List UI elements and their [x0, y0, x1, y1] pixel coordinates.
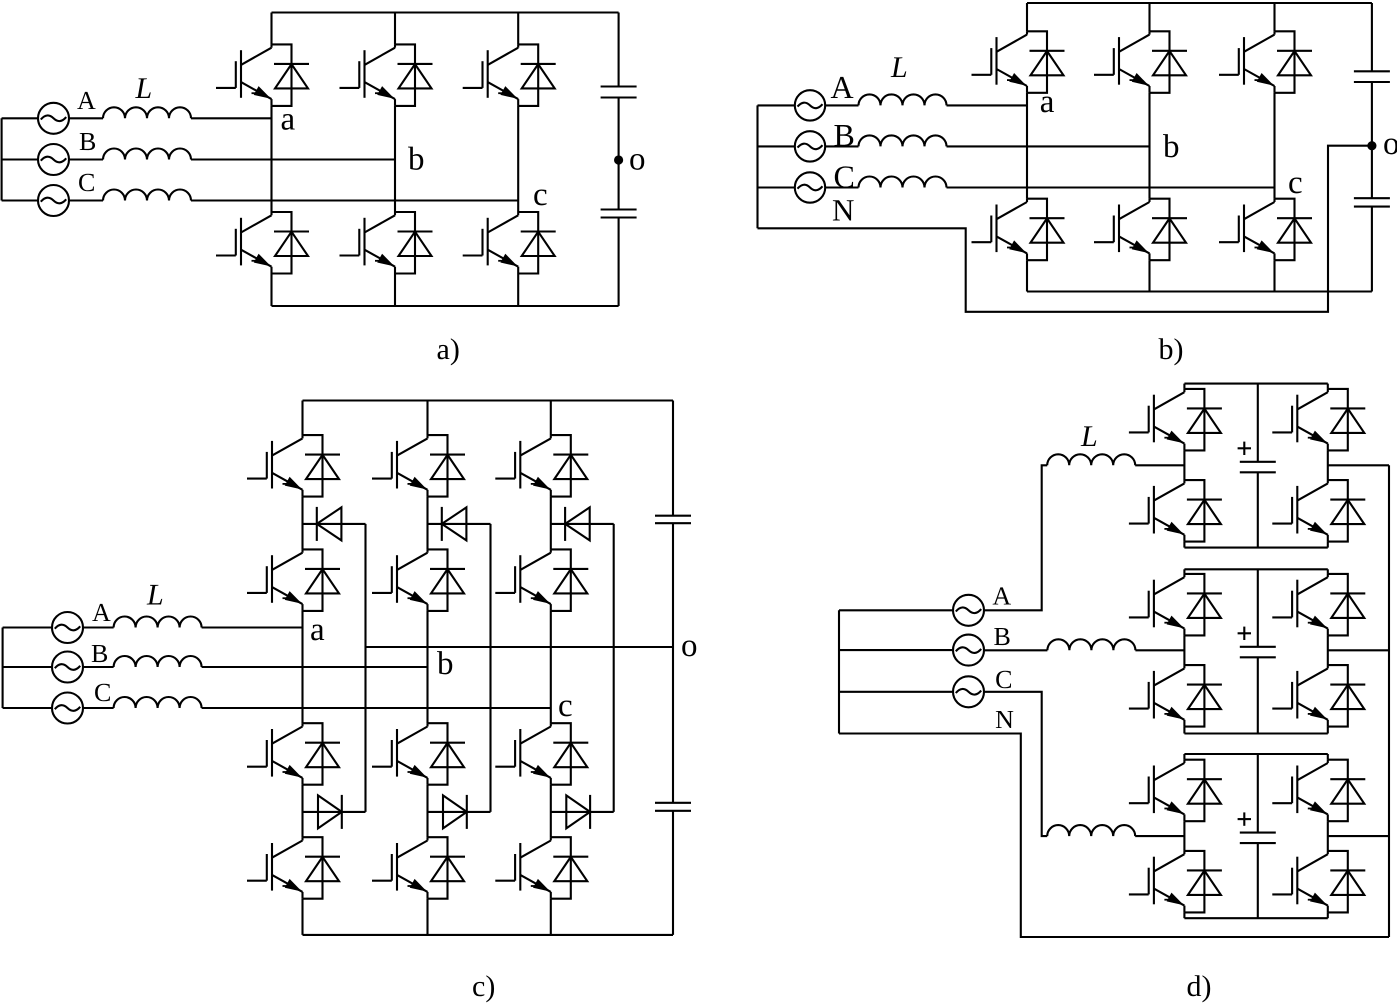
wire: circuit c leg b bottom lead	[426, 899, 428, 935]
wire: circuit c leg b lower clamp wire	[428, 811, 491, 813]
wire: circuit b leg c middle lead	[1273, 93, 1275, 199]
wire: circuit a phase A source to inductor	[69, 117, 104, 119]
svg-text:b): b)	[1159, 333, 1184, 366]
wire: circuit d source common bus	[838, 610, 840, 733]
wire: circuit d bridge 3 (phase C) output to right bus	[1328, 835, 1389, 837]
IGBT+diode module: circuit b, leg a, lower	[972, 199, 1065, 261]
wire: circuit d bridge 1 (phase A) output to right bus	[1328, 464, 1389, 466]
IGBT+diode module: circuit d bridge 2 (phase B), left leg, lower	[1129, 665, 1222, 727]
wire: circuit d bridge 3 (phase C) bottom DC rail	[1184, 917, 1327, 919]
svg-text:a: a	[1040, 84, 1055, 120]
svg-text:C: C	[78, 168, 95, 197]
inductor L phase C (circuit d)	[1047, 825, 1135, 836]
wire: circuit d phase B source to inductor	[984, 649, 1048, 651]
svg-text:A: A	[77, 86, 96, 115]
AC source phase B (circuit c)	[52, 652, 83, 683]
AC source phase C (circuit b)	[795, 172, 825, 202]
wire: circuit d bridge 1 (phase A) top DC rail	[1184, 383, 1327, 385]
IGBT+diode module: circuit a, leg b, upper	[340, 44, 433, 106]
wire: circuit b top DC rail	[1027, 2, 1372, 4]
svg-text:B: B	[834, 117, 855, 153]
wire: circuit a phase B inductor to leg b	[191, 158, 395, 160]
svg-text:C: C	[995, 665, 1012, 694]
IGBT+diode module: circuit b, leg b, lower	[1094, 199, 1187, 261]
wire: circuit b leg c bottom lead	[1273, 260, 1275, 291]
wire: circuit a phase A from bus to source	[2, 117, 39, 119]
wire: circuit d phase C source to dropper	[984, 692, 1048, 836]
node o junction dot (circuit b)	[1367, 141, 1376, 150]
inductor L phase A (circuit a)	[103, 107, 191, 118]
svg-text:c: c	[558, 688, 573, 724]
wire: circuit b DC link column lower	[1371, 207, 1373, 292]
plus sign: circuit d bridge 2 (phase B) capacitor polarity	[1238, 627, 1251, 640]
wire: circuit c DC link column middle	[672, 523, 674, 803]
IGBT+diode module: circuit c, leg b, outer upper	[372, 435, 465, 497]
wire: circuit c phase C inductor to leg c	[202, 707, 551, 709]
svg-text:L: L	[135, 72, 153, 105]
wire: circuit d bridge 1 (phase A) cap column upper	[1257, 384, 1259, 462]
AC source phase B (circuit d)	[953, 635, 984, 666]
IGBT+diode module: circuit a, leg a, upper	[216, 44, 309, 106]
wire: circuit c leg b node lead	[426, 611, 428, 723]
wire: circuit d phase A from bus to source	[839, 609, 954, 611]
wire: circuit a phase C inductor to leg c	[191, 199, 518, 201]
wire: circuit b bottom DC rail	[1027, 290, 1372, 292]
wire: circuit b DC link column upper	[1371, 3, 1373, 71]
clamp diode: circuit c, leg b, lower	[443, 795, 467, 829]
IGBT+diode module: circuit d bridge 2 (phase B), right leg, lower	[1272, 665, 1365, 727]
svg-text:c: c	[1288, 165, 1303, 201]
svg-text:b: b	[437, 646, 454, 682]
wire: circuit c phase C source to inductor	[83, 707, 114, 709]
AC source phase C (circuit d)	[953, 676, 984, 707]
wire: circuit d neutral N run	[839, 734, 1389, 938]
svg-text:L: L	[1080, 420, 1098, 453]
wire: circuit c phase C from bus to source	[3, 707, 53, 709]
svg-text:L: L	[890, 51, 908, 84]
IGBT+diode module: circuit b, leg c, upper	[1219, 31, 1312, 93]
svg-text:A: A	[92, 598, 111, 627]
wire: circuit d bridge 3 (phase C) left leg top lead	[1183, 754, 1185, 760]
IGBT+diode module: circuit a, leg c, upper	[463, 44, 556, 106]
inductor L phase C (circuit c)	[114, 697, 202, 708]
wire: circuit c phase B inductor to leg b	[202, 666, 428, 668]
svg-text:C: C	[834, 159, 855, 195]
wire: circuit c leg c upper clamp wire	[551, 523, 614, 525]
wire: circuit a bottom DC rail	[272, 305, 619, 307]
wire: circuit d bridge 2 (phase B) cap column upper	[1257, 569, 1259, 647]
capacitor: circuit c lower DC-link	[655, 803, 691, 811]
svg-text:B: B	[91, 639, 108, 668]
wire: circuit c DC link column lower	[672, 811, 674, 935]
wire: circuit d bridge 1 (phase A) right leg middle lead	[1327, 450, 1329, 480]
plus sign: circuit d bridge 1 (phase A) capacitor polarity	[1238, 442, 1251, 455]
inductor L phase B (circuit d)	[1047, 639, 1135, 650]
capacitor: circuit d bridge 3 (phase C) DC-link	[1240, 833, 1276, 844]
wire: circuit c phase B source to inductor	[83, 666, 114, 668]
wire: circuit d bridge 2 (phase B) output to right bus	[1328, 649, 1389, 651]
inductor L phase C (circuit a)	[103, 190, 191, 201]
IGBT+diode module: circuit a, leg b, lower	[340, 212, 433, 274]
clamp diode: circuit c, leg c, lower	[566, 795, 590, 829]
wire: circuit c leg a upper clamp wire	[303, 523, 366, 525]
capacitor: circuit d bridge 1 (phase A) DC-link	[1240, 462, 1276, 473]
IGBT+diode module: circuit b, leg a, upper	[972, 31, 1065, 93]
wire: circuit d bridge 3 (phase C) left leg middle lead	[1183, 821, 1185, 851]
wire: circuit d bridge 2 (phase B) bottom DC rail	[1184, 732, 1327, 734]
wire: circuit c leg a node lead	[301, 611, 303, 723]
wire: circuit c leg a bottom lead	[301, 899, 303, 935]
AC source phase A (circuit d)	[953, 595, 984, 626]
wire: circuit d bridge 3 (phase C) cap column upper	[1257, 754, 1259, 833]
svg-text:C: C	[94, 678, 111, 707]
capacitor: circuit a upper DC-link	[601, 87, 637, 98]
wire: circuit d bridge 1 (phase A) right leg bottom lead	[1327, 542, 1329, 548]
IGBT+diode module: circuit c, leg c, inner upper	[495, 549, 588, 611]
wire: circuit a top DC rail	[272, 11, 619, 13]
IGBT+diode module: circuit c, leg b, inner upper	[372, 549, 465, 611]
wire: circuit b phase B inductor to leg b	[947, 145, 1150, 147]
AC source phase A (circuit c)	[52, 612, 83, 643]
IGBT+diode module: circuit c, leg b, outer lower	[372, 837, 465, 899]
IGBT+diode module: circuit d bridge 1 (phase A), right leg, upper	[1272, 389, 1365, 451]
wire: circuit a leg b top lead	[394, 13, 396, 45]
wire: circuit c neutral o line	[366, 646, 674, 648]
svg-text:o: o	[681, 628, 698, 664]
wire: circuit b phase C source to inductor	[825, 186, 858, 188]
svg-text:B: B	[994, 622, 1011, 651]
IGBT+diode module: circuit c, leg c, outer upper	[495, 435, 588, 497]
wire: circuit b phase B from bus to source	[758, 145, 795, 147]
svg-text:N: N	[832, 193, 854, 228]
wire: circuit c phase A source to inductor	[83, 626, 114, 628]
wire: circuit a leg c middle lead	[517, 106, 519, 212]
wire: circuit c DC link column upper	[672, 401, 674, 516]
wire: circuit d bridge 2 (phase B) left leg bottom lead	[1183, 727, 1185, 734]
wire: circuit a phase C source to inductor	[69, 199, 104, 201]
inductor L phase A (circuit d)	[1047, 454, 1135, 465]
inductor L phase A (circuit b)	[859, 94, 947, 105]
wire: circuit b phase A from bus to source	[758, 104, 795, 106]
wire: circuit c phase B from bus to source	[3, 666, 53, 668]
wire: circuit d bridge 1 (phase A) right leg top lead	[1327, 384, 1329, 389]
wire: circuit d phase B inductor to bridge 2	[1135, 649, 1184, 651]
wire: circuit a leg c bottom lead	[517, 274, 519, 307]
wire: circuit d phase B from bus to source	[839, 649, 954, 651]
wire: circuit b phase B source to inductor	[825, 145, 858, 147]
inductor L phase B (circuit b)	[859, 135, 947, 146]
wire: circuit b leg c top lead	[1273, 3, 1275, 31]
wire: circuit c leg c node lead	[550, 611, 552, 723]
IGBT+diode module: circuit c, leg c, inner lower	[495, 723, 588, 785]
wire: circuit d phase C inductor to bridge 3	[1135, 835, 1184, 837]
inductor L phase B (circuit a)	[103, 149, 191, 160]
wire: circuit c leg a lower middle lead	[301, 785, 303, 838]
wire: circuit d bridge 3 (phase C) left leg bottom lead	[1183, 912, 1185, 918]
plus sign: circuit d bridge 3 (phase C) capacitor polarity	[1238, 812, 1251, 825]
IGBT+diode module: circuit c, leg a, outer lower	[247, 837, 340, 899]
capacitor: circuit c upper DC-link	[655, 516, 691, 524]
wire: circuit c leg a top lead	[301, 401, 303, 436]
wire: circuit d phase A source to riser	[984, 465, 1048, 610]
wire: circuit b neutral N run	[758, 146, 1372, 312]
wire: circuit c bottom DC rail	[303, 934, 674, 936]
wire: circuit d bridge 2 (phase B) right leg middle lead	[1327, 635, 1329, 665]
wire: circuit b source common bus	[756, 105, 758, 228]
wire: circuit a leg a top lead	[270, 13, 272, 45]
wire: circuit c leg c bottom lead	[550, 899, 552, 935]
wire: circuit d bridge 1 (phase A) left leg bottom lead	[1183, 542, 1185, 548]
wire: circuit a leg c top lead	[517, 13, 519, 45]
IGBT+diode module: circuit b, leg b, upper	[1094, 31, 1187, 93]
IGBT+diode module: circuit d bridge 3 (phase C), left leg, lower	[1129, 851, 1222, 913]
wire: circuit c leg b upper middle lead	[426, 497, 428, 550]
clamp diode: circuit c, leg a, lower	[318, 795, 342, 829]
wire: circuit a phase B source to inductor	[69, 158, 104, 160]
inductor L phase C (circuit b)	[859, 177, 947, 188]
wire: circuit c leg a clamp vertical	[364, 524, 366, 812]
wire: circuit b phase A inductor to leg a	[947, 104, 1028, 106]
IGBT+diode module: circuit c, leg a, inner upper	[247, 549, 340, 611]
IGBT+diode module: circuit c, leg c, outer lower	[495, 837, 588, 899]
clamp diode: circuit c, leg b, upper	[442, 507, 467, 541]
wire: circuit c top DC rail	[303, 399, 674, 401]
wire: circuit b leg a middle lead	[1026, 93, 1028, 199]
wire: circuit d bridge 2 (phase B) cap column lower	[1257, 657, 1259, 733]
IGBT+diode module: circuit a, leg c, lower	[463, 212, 556, 274]
svg-text:L: L	[146, 579, 164, 612]
wire: circuit d bridge 1 (phase A) cap column lower	[1257, 472, 1259, 547]
wire: circuit a leg b middle lead	[394, 106, 396, 212]
wire: circuit c leg b lower middle lead	[426, 785, 428, 838]
inductor L phase B (circuit c)	[114, 656, 202, 667]
capacitor: circuit b upper DC-link	[1354, 71, 1390, 82]
wire: circuit d bridge 2 (phase B) top DC rail	[1184, 568, 1327, 570]
clamp diode: circuit c, leg a, upper	[317, 507, 342, 541]
wire: circuit d bridge 2 (phase B) left leg middle lead	[1183, 635, 1185, 665]
IGBT+diode module: circuit a, leg a, lower	[216, 212, 309, 274]
svg-text:b: b	[1163, 129, 1180, 165]
wire: circuit a phase B from bus to source	[2, 158, 39, 160]
IGBT+diode module: circuit d bridge 2 (phase B), left leg, upper	[1129, 574, 1222, 636]
AC source phase C (circuit a)	[38, 185, 69, 216]
wire: circuit d bridge 2 (phase B) right leg bottom lead	[1327, 727, 1329, 734]
wire: circuit d bridge 2 (phase B) left leg top lead	[1183, 569, 1185, 574]
wire: circuit c source common bus	[2, 628, 4, 709]
wire: circuit d bridge 1 (phase A) bottom DC rail	[1184, 547, 1327, 549]
svg-text:a: a	[310, 612, 325, 648]
IGBT+diode module: circuit d bridge 1 (phase A), right leg, lower	[1272, 480, 1365, 541]
IGBT+diode module: circuit d bridge 1 (phase A), left leg, upper	[1129, 389, 1222, 451]
wire: circuit c phase A inductor to leg a	[202, 626, 303, 628]
wire: circuit d bridge 2 (phase B) right leg top lead	[1327, 569, 1329, 574]
wire: circuit d bridge 1 (phase A) left leg top lead	[1183, 384, 1185, 389]
wire: circuit a leg a bottom lead	[270, 274, 272, 307]
wire: circuit d bridge 3 (phase C) right leg middle lead	[1327, 821, 1329, 851]
wire: circuit b leg b middle lead	[1148, 93, 1150, 199]
wire: circuit b phase C from bus to source	[758, 186, 795, 188]
wire: circuit c leg c top lead	[550, 401, 552, 436]
wire: circuit c phase A from bus to source	[3, 626, 53, 628]
wire: circuit c leg c clamp vertical	[613, 524, 615, 812]
wire: circuit b leg b top lead	[1148, 3, 1150, 31]
AC source phase A (circuit a)	[38, 103, 69, 134]
AC source phase B (circuit b)	[795, 131, 825, 161]
svg-text:N: N	[995, 705, 1014, 734]
IGBT+diode module: circuit d bridge 2 (phase B), right leg, upper	[1272, 574, 1365, 636]
svg-text:A: A	[831, 69, 854, 105]
capacitor: circuit b lower DC-link	[1354, 198, 1390, 206]
wire: circuit c leg c lower clamp wire	[551, 811, 614, 813]
wire: circuit b phase C inductor to leg c	[947, 186, 1275, 188]
wire: circuit d bridge 3 (phase C) right leg bottom lead	[1327, 912, 1329, 918]
svg-text:c): c)	[472, 970, 495, 1003]
wire: circuit b leg b bottom lead	[1148, 260, 1150, 291]
wire: circuit b DC link column middle	[1371, 82, 1373, 198]
wire: circuit d bridge 3 (phase C) cap column lower	[1257, 843, 1259, 918]
wire: circuit a DC link column lower	[618, 218, 620, 307]
IGBT+diode module: circuit d bridge 1 (phase A), left leg, lower	[1129, 480, 1222, 541]
capacitor: circuit d bridge 2 (phase B) DC-link	[1240, 647, 1276, 658]
svg-text:a): a)	[437, 333, 460, 366]
svg-text:a: a	[281, 102, 296, 138]
wire: circuit c leg b top lead	[426, 401, 428, 436]
capacitor: circuit a lower DC-link	[601, 210, 637, 218]
clamp diode: circuit c, leg c, upper	[565, 507, 590, 541]
inductor L phase A (circuit c)	[114, 617, 202, 628]
wire: circuit a phase C from bus to source	[2, 199, 39, 201]
wire: circuit d bridge 3 (phase C) top DC rail	[1184, 753, 1327, 755]
IGBT+diode module: circuit c, leg a, inner lower	[247, 723, 340, 785]
svg-text:o: o	[629, 142, 646, 178]
svg-text:A: A	[992, 582, 1011, 611]
wire: circuit a DC link column upper	[618, 13, 620, 87]
svg-text:d): d)	[1187, 970, 1212, 1003]
wire: circuit b leg a bottom lead	[1026, 260, 1028, 291]
wire: circuit c leg a lower clamp wire	[303, 811, 366, 813]
wire: circuit a DC link column middle	[618, 98, 620, 210]
IGBT+diode module: circuit d bridge 3 (phase C), right leg, lower	[1272, 851, 1365, 913]
wire: circuit c leg b clamp vertical	[489, 524, 491, 812]
IGBT+diode module: circuit b, leg c, lower	[1219, 199, 1312, 261]
wire: circuit a leg b bottom lead	[394, 274, 396, 307]
wire: circuit c leg c upper middle lead	[550, 497, 552, 550]
wire: circuit c leg b upper clamp wire	[428, 523, 491, 525]
wire: circuit b phase A source to inductor	[825, 104, 858, 106]
AC source phase C (circuit c)	[52, 693, 83, 724]
wire: circuit d phase C from bus to source	[839, 691, 954, 693]
wire: circuit d right return bus	[1388, 465, 1390, 937]
svg-text:B: B	[79, 127, 96, 156]
IGBT+diode module: circuit d bridge 3 (phase C), left leg, upper	[1129, 760, 1222, 822]
svg-text:b: b	[408, 142, 425, 178]
IGBT+diode module: circuit c, leg b, inner lower	[372, 723, 465, 785]
wire: circuit c leg a upper middle lead	[301, 497, 303, 550]
svg-text:o: o	[1383, 126, 1397, 162]
wire: circuit a leg a middle lead	[270, 106, 272, 212]
AC source phase A (circuit b)	[795, 90, 825, 120]
AC source phase B (circuit a)	[38, 144, 69, 175]
node o junction dot (circuit a)	[614, 155, 623, 164]
wire: circuit d phase A inductor to bridge 1	[1135, 464, 1184, 466]
wire: circuit a source common bus	[1, 118, 3, 200]
wire: circuit b leg a top lead	[1026, 3, 1028, 31]
wire: circuit c leg c lower middle lead	[550, 785, 552, 838]
wire: circuit d bridge 3 (phase C) right leg top lead	[1327, 754, 1329, 760]
wire: circuit d bridge 1 (phase A) left leg middle lead	[1183, 450, 1185, 480]
IGBT+diode module: circuit d bridge 3 (phase C), right leg, upper	[1272, 760, 1365, 822]
IGBT+diode module: circuit c, leg a, outer upper	[247, 435, 340, 497]
svg-text:c: c	[533, 177, 548, 213]
wire: circuit a phase A inductor to leg a	[191, 117, 272, 119]
